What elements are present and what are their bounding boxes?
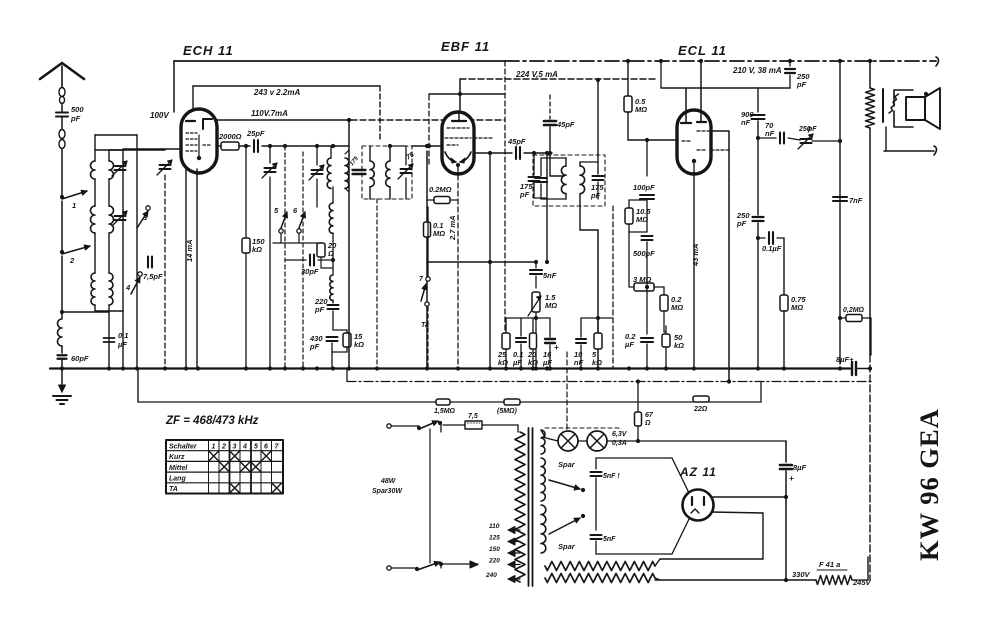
capacitor 45pF top (549, 95, 551, 119)
wire (239, 145, 250, 147)
wire EBF anode (459, 79, 461, 113)
capacitor 0.2uF (646, 287, 648, 334)
svg-text:+: + (789, 474, 794, 483)
capacitor 220pF (328, 304, 339, 306)
tube ECL11 internals (681, 122, 691, 124)
wire switch link (280, 233, 282, 243)
svg-text:ECH 11: ECH 11 (183, 43, 234, 58)
wire (728, 180, 730, 382)
wire EBF grid dash (428, 95, 430, 166)
svg-text:43 mA: 43 mA (691, 243, 700, 267)
capacitor 175pF IF2 primary (540, 158, 542, 176)
resistor 0.2M tone (840, 317, 846, 319)
capacitor 5nF AF (535, 262, 537, 268)
svg-text:67: 67 (645, 412, 654, 419)
wire tuning line (122, 150, 124, 369)
svg-text:7nF: 7nF (849, 196, 863, 205)
capacitor 7nF (833, 196, 847, 198)
wire heater line (138, 401, 436, 403)
resistor 22ohm (693, 396, 709, 402)
capacitor 0.1uF (520, 318, 522, 336)
svg-text:6,3V: 6,3V (612, 431, 628, 438)
wire (489, 153, 491, 369)
svg-text:2: 2 (69, 256, 75, 265)
wire switch link (429, 429, 431, 563)
resistor 20k (530, 333, 537, 349)
resistor 0.5M grid (627, 61, 629, 96)
wire 224V rail (460, 78, 658, 80)
switch 5 (281, 212, 287, 228)
trimmer C2 (115, 215, 126, 217)
transformer taps (508, 529, 520, 531)
IF1 trimmer (405, 146, 407, 165)
svg-text:MΩ: MΩ (433, 229, 445, 238)
wire dash above lamps (545, 427, 620, 429)
svg-text:14 mA: 14 mA (185, 239, 194, 262)
svg-text:8µF+: 8µF+ (836, 355, 854, 364)
switch table (166, 440, 283, 494)
svg-text:0.2MΩ: 0.2MΩ (429, 185, 452, 194)
svg-text:243 v 2.2mA: 243 v 2.2mA (253, 88, 300, 97)
wire (524, 152, 552, 154)
lamp 1 (558, 431, 578, 451)
switch 4 (131, 277, 140, 294)
svg-text:1: 1 (212, 444, 216, 451)
svg-text:pF: pF (519, 190, 530, 199)
svg-text:7,5pF: 7,5pF (143, 272, 163, 281)
wire tone row (758, 137, 776, 139)
svg-text:MΩ: MΩ (635, 105, 647, 114)
wire top rail H1 (anode supply) (174, 60, 505, 62)
wire antenna lead (61, 66, 63, 88)
wire (61, 117, 63, 129)
capacitor 8uF bus (851, 362, 853, 375)
wire dash (612, 206, 614, 369)
coil osc padding (330, 275, 333, 301)
wire osc dash a (284, 146, 286, 369)
capacitor osc padder (353, 169, 366, 171)
IF2 primary coil (565, 158, 567, 166)
svg-text:5: 5 (274, 206, 279, 215)
svg-text:5nF: 5nF (603, 536, 616, 543)
capacitor 100pF (646, 140, 648, 176)
transformer speaker core (882, 89, 884, 122)
wire H1 end hook (936, 57, 939, 66)
svg-text:110V.7mA: 110V.7mA (251, 109, 288, 118)
capacitor 250pF fb (753, 216, 764, 218)
wire ECH anode row (216, 145, 221, 147)
svg-text:1: 1 (72, 201, 76, 210)
trimmer C1 (115, 165, 126, 167)
capacitor 5nF 2 (591, 534, 602, 536)
svg-text:5nF: 5nF (543, 271, 557, 280)
svg-text:kΩ: kΩ (252, 245, 262, 254)
wire ECH cathode (196, 169, 198, 369)
antenna insulator beads 2 (59, 130, 65, 139)
svg-text:pF: pF (807, 126, 817, 133)
svg-text:Spar: Spar (558, 460, 576, 469)
IF1 secondary coil (389, 146, 391, 161)
trimmer osc C3 (160, 164, 171, 166)
antenna insulator beads (59, 88, 65, 97)
svg-text:nF: nF (741, 118, 751, 127)
wire mixer grid row (262, 145, 349, 147)
svg-text:ECL 11: ECL 11 (678, 43, 727, 58)
tube EBF11 internals (452, 120, 466, 122)
capacitor 500pF (642, 235, 653, 237)
switch 2 (60, 250, 64, 254)
IF1 shield box (362, 146, 412, 199)
svg-text:kΩ: kΩ (592, 358, 602, 367)
capacitor 175pF IF2 sec (597, 80, 599, 174)
coil L1 antenna (94, 135, 96, 161)
capacitor 8uF reservoir (785, 441, 787, 462)
svg-text:330V: 330V (792, 570, 811, 579)
svg-text:175: 175 (349, 155, 360, 167)
wire osc dashed (164, 175, 166, 369)
resistor 1.5M heater (436, 399, 450, 405)
resistor 0.2M diode load (427, 199, 434, 201)
wire tuner mid link (95, 149, 123, 151)
capacitor 175pF diode (533, 153, 535, 175)
wire output vertical (839, 61, 841, 364)
tube ECH11 internals (186, 120, 195, 122)
capacitor 500pF antenna (56, 112, 68, 114)
svg-text:KW 96 GEA: KW 96 GEA (914, 408, 944, 561)
wire chassis bus (50, 367, 850, 369)
resistor 15k (346, 330, 348, 333)
wire EBF out (476, 152, 512, 154)
coil osc secondary (348, 120, 350, 369)
svg-text:pF: pF (314, 305, 325, 314)
wire AZ11 anode (713, 496, 786, 498)
bus junction dots (107, 366, 111, 370)
svg-text:48W: 48W (380, 478, 397, 485)
capacitor 25pF (253, 140, 255, 152)
svg-text:Spar: Spar (558, 542, 576, 551)
resistor 25k (505, 318, 507, 333)
capacitor 45pF coupling (515, 147, 517, 159)
svg-text:1,5MΩ: 1,5MΩ (434, 408, 456, 415)
svg-text:0,2MΩ: 0,2MΩ (843, 307, 865, 314)
resistor 10.5M (625, 208, 633, 224)
svg-text:8µF: 8µF (793, 463, 806, 472)
transformer primary (515, 432, 525, 582)
wire to chassis bus (61, 359, 63, 369)
svg-text:0,3A: 0,3A (612, 440, 627, 447)
svg-text:+: + (554, 343, 559, 352)
capacitor 0.1uF (104, 337, 115, 339)
wire 4V winding top (545, 562, 655, 571)
IF2 secondary coil (579, 162, 581, 166)
wire right dash (870, 318, 872, 355)
svg-text:4: 4 (125, 283, 131, 292)
svg-text:45pF: 45pF (507, 137, 526, 146)
wire (61, 201, 63, 251)
wire osc right (185, 150, 187, 369)
wire long vertical (426, 151, 428, 369)
resistor 5k (597, 318, 599, 333)
coil osc primary (327, 158, 331, 188)
switch mains bottom (387, 566, 391, 570)
svg-text:2.7 mA: 2.7 mA (448, 215, 457, 241)
node antenna-coil junction (60, 310, 64, 314)
svg-text:75: 75 (405, 151, 415, 161)
resistor 150k (245, 146, 247, 238)
wire (758, 87, 790, 89)
svg-text:F 41 a: F 41 a (819, 560, 840, 569)
svg-text:45pF: 45pF (556, 120, 575, 129)
potentiometer 1.5M volume (532, 292, 540, 312)
svg-text:Mittel: Mittel (169, 465, 188, 472)
wire tuner bottom (95, 310, 123, 312)
capacitor 0.1uF fb (768, 232, 770, 244)
svg-text:6: 6 (264, 444, 268, 451)
wire spar box top (596, 457, 672, 459)
transformer speaker primary (894, 90, 913, 106)
capacitor 5nF 1 (591, 471, 602, 473)
ground (53, 395, 71, 397)
svg-text:Lang: Lang (169, 476, 186, 483)
svg-text:kΩ: kΩ (674, 341, 684, 350)
svg-text:7: 7 (419, 276, 424, 283)
svg-text:(5MΩ): (5MΩ) (497, 408, 518, 415)
svg-text:500pF: 500pF (633, 249, 655, 258)
wire IF2 secondary down (580, 229, 598, 231)
wire 245V riser (852, 579, 868, 581)
svg-text:60pF: 60pF (71, 354, 89, 363)
coil osc tracking (329, 203, 333, 233)
wire speaker leads (885, 127, 887, 151)
svg-text:pF: pF (590, 191, 601, 200)
wire to earth coil (62, 311, 108, 313)
svg-text:2000Ω: 2000Ω (218, 132, 242, 141)
wire (427, 207, 429, 262)
svg-text:150: 150 (489, 546, 500, 553)
svg-text:EBF 11: EBF 11 (441, 39, 490, 54)
svg-text:0.1µF: 0.1µF (762, 244, 782, 253)
wire ecl plate link (711, 130, 729, 132)
svg-text:Spar30W: Spar30W (372, 488, 403, 495)
svg-text:22Ω: 22Ω (693, 406, 708, 413)
resistor 67ohm (637, 382, 639, 413)
wire AZ11 to bleeder (785, 497, 787, 580)
svg-text:pF: pF (70, 114, 81, 123)
svg-text:210 V, 38 mA: 210 V, 38 mA (732, 66, 782, 75)
trimmer osc grid (312, 169, 323, 171)
wire grid to ECH11 (123, 148, 183, 150)
wire (629, 231, 647, 233)
svg-text:110: 110 (489, 523, 500, 530)
coil L2 secondary (108, 150, 110, 161)
wire ECL anode (699, 59, 703, 63)
switch 1 (60, 195, 64, 199)
wire ECL triode anode (660, 61, 662, 88)
tube ECL11 (677, 110, 711, 174)
svg-text:25pF: 25pF (246, 129, 265, 138)
switch 7 TA (427, 262, 429, 276)
svg-text:nF: nF (765, 129, 775, 138)
wire IF1 to EBF grid (412, 145, 443, 147)
resistor 50k cathode (662, 334, 670, 347)
svg-text:MΩ: MΩ (636, 215, 648, 224)
svg-text:MΩ: MΩ (791, 303, 803, 312)
coil field winding (869, 61, 871, 88)
transformer winding 3 (541, 505, 546, 553)
wire to ground (61, 369, 63, 393)
svg-text:TA: TA (169, 486, 178, 493)
wire (61, 149, 63, 196)
svg-text:Ω: Ω (644, 420, 651, 427)
wire spar box bottom (596, 553, 672, 555)
wire tuner top (95, 134, 137, 136)
wire AZ11 filament loop (712, 512, 763, 513)
svg-text:5nF !: 5nF ! (603, 473, 620, 480)
capacitor 60pF (58, 354, 67, 356)
svg-text:30pF: 30pF (301, 267, 319, 276)
wire grid link (628, 139, 676, 141)
capacitor 70nF (779, 133, 781, 144)
wire (61, 103, 63, 111)
tube EBF11 (442, 112, 474, 174)
wire 110V rail (211, 119, 351, 121)
wire ECL cathode (693, 172, 695, 369)
svg-text:7,5: 7,5 (468, 413, 478, 420)
IF2 shield box (533, 155, 605, 206)
svg-text:100V: 100V (150, 111, 169, 120)
tube AZ11 (683, 490, 714, 521)
wire tuner right (136, 135, 138, 369)
svg-text:MΩ: MΩ (545, 301, 557, 310)
svg-text:5: 5 (254, 444, 258, 451)
svg-text:6: 6 (293, 206, 298, 215)
svg-text:125: 125 (489, 535, 500, 542)
switch 3 (137, 211, 148, 228)
svg-text:µF: µF (117, 340, 127, 349)
svg-text:AZ 11: AZ 11 (679, 465, 717, 479)
svg-text:500: 500 (71, 105, 84, 114)
wire second bus (347, 381, 871, 383)
wire link top (109, 149, 165, 151)
svg-text:240: 240 (485, 572, 497, 579)
svg-text:220: 220 (488, 558, 500, 565)
svg-text:2: 2 (221, 444, 226, 451)
speaker (906, 97, 925, 120)
lamp 2 (587, 431, 607, 451)
capacitor 10nF (580, 318, 582, 337)
capacitor 430pF (327, 336, 338, 338)
resistor 0.2M ECL (663, 287, 665, 295)
transformer core (528, 428, 530, 586)
capacitor 900nF (757, 88, 759, 112)
coil antenna earth (58, 319, 63, 346)
fuse 7.5 (443, 424, 465, 426)
capacitor 16uF electrolytic (549, 318, 551, 337)
wire (61, 256, 63, 318)
svg-text:µF: µF (542, 358, 552, 367)
resistor 5M heater (504, 399, 520, 405)
svg-text:kΩ: kΩ (354, 340, 364, 349)
wire IF1 bottom dash (376, 199, 378, 369)
svg-text:3 MΩ: 3 MΩ (633, 275, 652, 284)
svg-text:4: 4 (242, 444, 247, 451)
wire mains tap (441, 563, 478, 565)
wire lamp row (542, 437, 558, 441)
wire dash vertical to lamps (566, 352, 568, 433)
IF1 primary coil (369, 146, 371, 161)
tube ECH11 (181, 109, 217, 173)
resistor F41a bleeder (816, 576, 852, 585)
resistor 0.1M (424, 222, 431, 237)
antenna (40, 63, 84, 79)
resistor 0.75M (783, 238, 785, 295)
wire EBF cathode dash (457, 175, 459, 369)
svg-text:Kurz: Kurz (169, 454, 185, 461)
svg-text:MΩ: MΩ (671, 303, 683, 312)
capacitor 7.5pF (147, 257, 149, 268)
wire H1 left drop to ECH11 (173, 61, 175, 112)
svg-text:ZF = 468/473 kHz: ZF = 468/473 kHz (165, 415, 259, 427)
svg-text:224 V,5 mA: 224 V,5 mA (515, 70, 558, 79)
svg-text:100pF: 100pF (633, 183, 655, 192)
svg-text:pF: pF (796, 80, 807, 89)
wire link (506, 317, 550, 319)
wire (61, 346, 63, 353)
resistor 3M (634, 283, 654, 291)
switch mains top (387, 424, 391, 428)
switch 6 (299, 212, 305, 228)
capacitor 250pF top (789, 61, 791, 66)
tube AZ11 internals (691, 497, 693, 505)
capacitor 30pF (285, 259, 306, 261)
wire 243V screen rail (193, 85, 380, 87)
trimmer mixer (269, 146, 271, 163)
svg-text:pF: pF (736, 219, 747, 228)
svg-text:3: 3 (233, 444, 237, 451)
resistor 2000ohm (221, 142, 239, 150)
wire AF line (428, 261, 536, 263)
wire osc dash b (302, 152, 304, 369)
wire bottom bus (545, 574, 655, 583)
wire AVC dash stub (474, 137, 492, 139)
svg-text:nF: nF (574, 358, 584, 367)
svg-text:Schalter: Schalter (169, 444, 198, 451)
svg-text:µF: µF (624, 340, 634, 349)
resistor 20ohm (317, 243, 325, 257)
wire IF1 tops (390, 145, 406, 147)
svg-text:pF: pF (309, 342, 320, 351)
transformer winding 2 (541, 458, 545, 501)
transformer heater winding (541, 430, 545, 454)
trimmer 250pF tone (801, 138, 812, 140)
